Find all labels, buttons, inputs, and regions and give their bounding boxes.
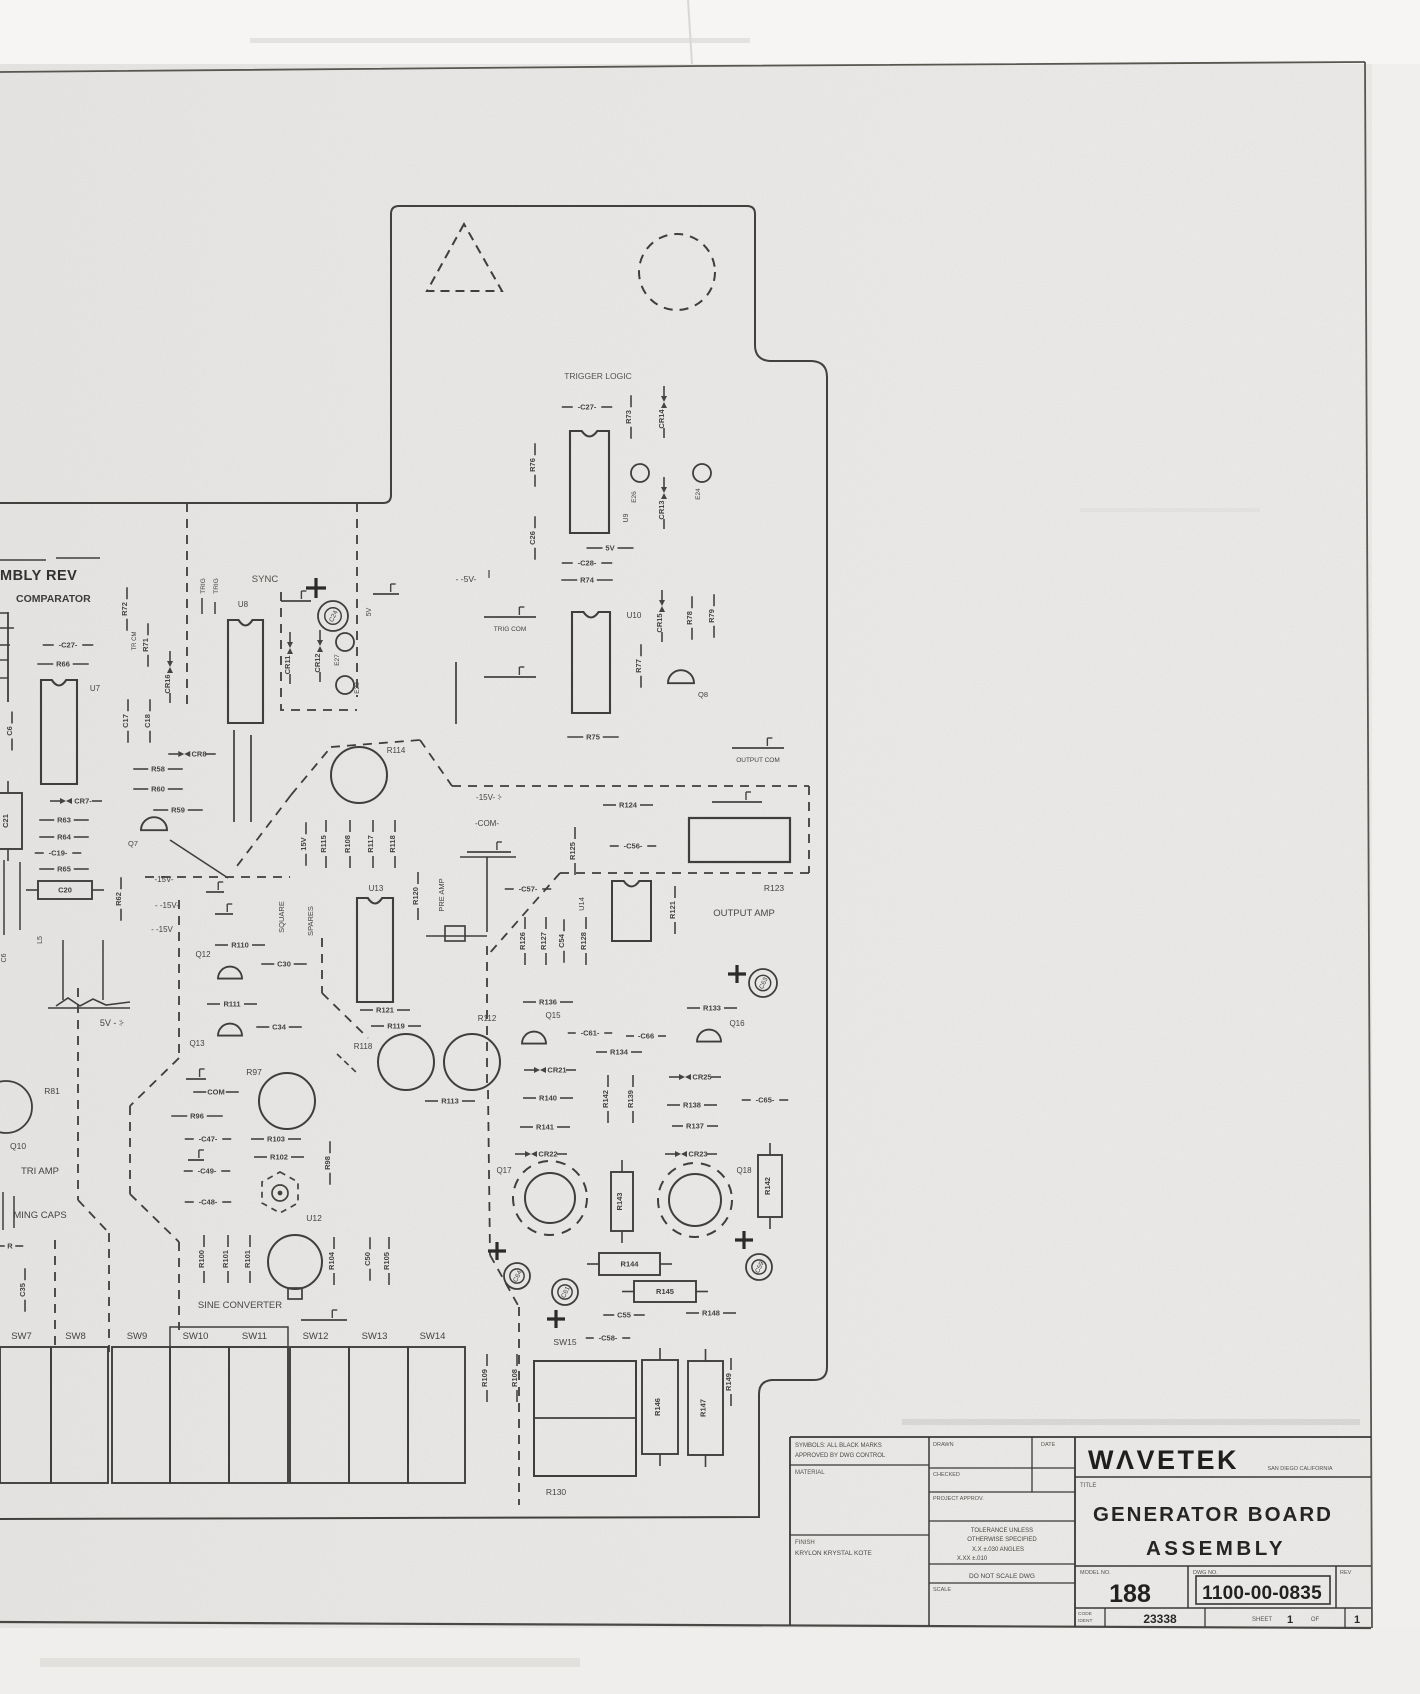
capacitor C27 (comparator) — [43, 641, 94, 650]
resistor R58 — [133, 765, 183, 774]
svg-text:-C28-: -C28- — [578, 559, 597, 568]
cut component left low a — [2, 1192, 4, 1230]
svg-text:5V: 5V — [366, 607, 373, 616]
potentiometer R118 can — [378, 1034, 434, 1090]
resistor R60 — [133, 785, 183, 794]
preamp boundary diag b (dashed) — [420, 740, 452, 786]
timing caps block boundary diag (dashed) — [78, 1200, 109, 1233]
resistor R115 — [319, 820, 328, 868]
svg-text:SAN DIEGO CALIFORNIA: SAN DIEGO CALIFORNIA — [1267, 1466, 1332, 1472]
title block mid col row3 — [929, 1520, 1075, 1522]
capacitor C30 — [261, 960, 307, 969]
cut component tick b — [0, 677, 8, 679]
eyelet E24 — [693, 464, 711, 482]
sine block boundary left v3 (dashed) — [178, 1242, 180, 1330]
svg-text:R130: R130 — [546, 1487, 567, 1497]
svg-text:R113: R113 — [441, 1097, 459, 1106]
wire Q7 diagonal — [170, 840, 228, 878]
svg-text:- -15V-: - -15V- — [155, 901, 179, 910]
svg-text:C55: C55 — [617, 1311, 631, 1320]
svg-text:U12: U12 — [306, 1213, 322, 1223]
resistor R100 — [197, 1235, 206, 1283]
svg-text:-COM-: -COM- — [475, 819, 499, 828]
svg-text:R128: R128 — [579, 932, 588, 950]
svg-text:R141: R141 — [536, 1123, 554, 1132]
svg-text:R121: R121 — [376, 1006, 394, 1015]
transistor Q12 — [218, 967, 242, 979]
svg-text:REV: REV — [1340, 1570, 1352, 1576]
sync block left boundary (dashed) — [186, 503, 188, 704]
svg-text:R76: R76 — [528, 458, 537, 472]
svg-text:OUTPUT COM: OUTPUT COM — [736, 757, 780, 764]
resistor R113 — [425, 1097, 475, 1106]
svg-text:R115: R115 — [319, 835, 328, 853]
capacitor C65 — [742, 1096, 789, 1105]
left dashed boundary low — [54, 1240, 56, 1352]
resistor R147 — [688, 1349, 723, 1467]
title block mid col row1 — [929, 1467, 1075, 1469]
resistor R77 — [634, 644, 643, 688]
diode CR16 — [163, 651, 173, 703]
svg-text:C17: C17 — [121, 714, 130, 728]
svg-text:R120: R120 — [411, 887, 420, 905]
capacitor C54 — [557, 919, 566, 963]
title block date cell divider — [1031, 1437, 1033, 1492]
svg-text:188: 188 — [1109, 1580, 1151, 1608]
svg-text:R75: R75 — [586, 733, 600, 742]
wire C53 lead — [426, 935, 487, 937]
svg-text:CR8: CR8 — [191, 750, 206, 759]
resistor R139 — [626, 1075, 635, 1123]
svg-text:R: R — [7, 1242, 13, 1251]
svg-text:5V - ⸖: 5V - ⸖ — [100, 1018, 124, 1028]
svg-text:APPROVED BY DWG CONTROL: APPROVED BY DWG CONTROL — [795, 1453, 886, 1459]
page frame right border — [1365, 62, 1372, 1628]
svg-text:R138: R138 — [683, 1101, 701, 1110]
resistor network R123 — [689, 818, 790, 862]
svg-text:SW7: SW7 — [11, 1331, 32, 1342]
ground (sync right) — [373, 584, 399, 594]
capacitor C21 (cut) — [0, 781, 22, 861]
capacitor C57 — [505, 885, 552, 894]
capacitor C66b — [626, 1032, 666, 1041]
model row divider a — [1187, 1566, 1189, 1608]
svg-text:C50: C50 — [363, 1252, 372, 1266]
svg-text:DRAWN: DRAWN — [933, 1442, 954, 1448]
svg-text:TRI AMP: TRI AMP — [21, 1166, 59, 1177]
title block mid col row4 — [929, 1563, 1075, 1565]
svg-text:-15V-: -15V- — [154, 875, 173, 884]
svg-text:DATE: DATE — [1041, 1442, 1056, 1448]
svg-text:-C49-: -C49- — [198, 1167, 217, 1176]
svg-text:R66: R66 — [56, 660, 70, 669]
sine block boundary left v2 (dashed) — [129, 1106, 131, 1194]
ground TRIG COM — [484, 607, 536, 617]
svg-text:FINISH: FINISH — [795, 1540, 815, 1546]
svg-text:-C47-: -C47- — [199, 1135, 218, 1144]
svg-text:R102: R102 — [270, 1153, 288, 1162]
sine block boundary left v1 (dashed) — [178, 900, 180, 1058]
svg-text:SW9: SW9 — [127, 1331, 148, 1342]
switch SW8 — [51, 1347, 108, 1483]
svg-text:SPARES: SPARES — [306, 906, 315, 936]
svg-text:R140: R140 — [539, 1094, 557, 1103]
ground (sine converter) — [301, 1310, 347, 1320]
output amp boundary diag (dashed) — [488, 873, 560, 955]
timing caps block boundary (dashed) — [77, 988, 79, 1200]
output amp boundary bottom (dashed) — [560, 872, 809, 874]
polarity mark C59 — [735, 1231, 753, 1249]
ground (below trig) — [484, 667, 536, 677]
model row top — [1075, 1565, 1371, 1567]
sine block boundary right diag (dashed) — [322, 993, 368, 1038]
resistor R124 — [603, 801, 653, 810]
svg-text:SW14: SW14 — [420, 1331, 446, 1342]
svg-text:R101: R101 — [221, 1250, 230, 1268]
svg-text:1: 1 — [1287, 1614, 1293, 1626]
eyelet E28 — [336, 676, 354, 694]
svg-text:R79: R79 — [707, 609, 716, 623]
eyelet E27 — [336, 633, 354, 651]
rev table line b — [56, 557, 100, 559]
fiducial triangle (dashed) — [427, 224, 502, 291]
resistor R73 — [624, 395, 633, 439]
resistor R117 — [366, 820, 375, 868]
capacitor C18 — [143, 699, 152, 743]
svg-text:R101: R101 — [243, 1250, 252, 1268]
title block divider v1 — [928, 1437, 930, 1626]
switch SW15 divider — [534, 1417, 636, 1419]
resistor R144 — [587, 1253, 672, 1275]
svg-text:Q18: Q18 — [736, 1166, 752, 1175]
potentiometer R114 — [331, 747, 387, 803]
ground (sine mid) — [186, 1069, 206, 1079]
svg-text:Q16: Q16 — [729, 1019, 745, 1028]
resistor R149 — [724, 1358, 733, 1406]
resistor R105 — [382, 1237, 391, 1285]
svg-text:R97: R97 — [246, 1067, 262, 1077]
svg-text:CR16: CR16 — [163, 674, 172, 693]
svg-text:U10: U10 — [627, 611, 642, 620]
resistor R119 — [371, 1022, 421, 1031]
output block left v (dashed) — [486, 946, 488, 1090]
capacitor C55 — [603, 1311, 645, 1320]
page frame top border — [0, 62, 1365, 72]
switch SW9 — [112, 1347, 170, 1483]
ground (sine top) — [206, 882, 224, 892]
svg-text:MODEL NO.: MODEL NO. — [1080, 1570, 1111, 1576]
transistor Q18 — [669, 1174, 721, 1226]
resistor R142b — [758, 1143, 782, 1229]
svg-text:5V: 5V — [605, 544, 614, 553]
svg-text:E27: E27 — [334, 654, 341, 666]
svg-text:DO NOT SCALE DWG: DO NOT SCALE DWG — [969, 1573, 1035, 1580]
svg-text:TRIG: TRIG — [200, 578, 207, 594]
eyelet E26 — [631, 464, 649, 482]
preamp boundary diag c (dashed) — [237, 795, 291, 866]
resistor R108b — [510, 1354, 519, 1402]
svg-text:R58: R58 — [151, 765, 165, 774]
svg-text:Q7: Q7 — [128, 839, 138, 848]
wire (trigger block left) — [455, 662, 457, 724]
resistor R99b — [243, 1235, 252, 1283]
svg-text:1100-00-0835: 1100-00-0835 — [1202, 1583, 1322, 1604]
wire trig out — [214, 602, 216, 614]
faint crease top center — [688, 0, 692, 64]
diode CR14 — [657, 386, 667, 438]
sine block boundary top (dashed) — [145, 876, 290, 878]
wire left edge cut a — [3, 860, 5, 935]
resistor R-left-cut — [0, 1242, 23, 1251]
svg-text:X.X ±.030 ANGLES: X.X ±.030 ANGLES — [972, 1547, 1024, 1553]
ground OUTPUT COM — [732, 738, 784, 748]
capacitor C53 (small) — [445, 926, 465, 941]
resistor R109 — [480, 1354, 489, 1402]
capacitor C64 — [504, 1263, 530, 1289]
svg-text:R146: R146 — [653, 1398, 662, 1416]
sine block boundary diag1 (dashed) — [130, 1058, 179, 1106]
svg-text:R123: R123 — [764, 883, 785, 893]
resistor R103 — [251, 1135, 301, 1144]
diode CR25 — [669, 1073, 721, 1082]
svg-text:Q13: Q13 — [189, 1039, 205, 1048]
capacitor C34 — [256, 1023, 302, 1032]
svg-text:X.XX ±.010: X.XX ±.010 — [957, 1556, 988, 1562]
faint smudge top — [250, 38, 750, 43]
svg-text:TRIG COM: TRIG COM — [494, 626, 527, 633]
svg-text:U14: U14 — [577, 897, 586, 911]
svg-text:R105: R105 — [382, 1252, 391, 1270]
svg-text:CODE: CODE — [1078, 1611, 1092, 1617]
wire trig in — [201, 598, 203, 614]
svg-text:15V: 15V — [299, 837, 308, 850]
resistor R140 — [523, 1094, 573, 1103]
svg-text:MBLY REV: MBLY REV — [0, 568, 77, 584]
resistor R136 — [523, 998, 573, 1007]
diode CR23 — [665, 1150, 717, 1159]
capacitor C61b — [552, 1279, 578, 1305]
resistor R148 — [686, 1309, 736, 1318]
svg-text:R109: R109 — [480, 1369, 489, 1387]
transistor Q13 — [218, 1024, 242, 1036]
wire 5V squiggle — [48, 998, 130, 1008]
svg-text:C34: C34 — [272, 1023, 287, 1032]
svg-text:R148: R148 — [702, 1309, 720, 1318]
switch SW12 — [290, 1347, 349, 1483]
svg-text:R136: R136 — [539, 998, 557, 1007]
resistor R118 — [388, 820, 397, 868]
capacitor C49 — [184, 1167, 231, 1176]
preamp boundary diag a (dashed) — [291, 747, 331, 795]
resistor R59 — [153, 806, 203, 815]
svg-text:R117: R117 — [366, 835, 375, 853]
svg-text:MATERIAL: MATERIAL — [795, 1470, 825, 1476]
svg-text:SW15: SW15 — [553, 1337, 576, 1347]
right margin strip — [1372, 64, 1420, 1628]
faint smudge mid right — [1080, 508, 1260, 512]
switch SW11 — [229, 1347, 288, 1483]
svg-text:Q8: Q8 — [698, 690, 708, 699]
svg-text:TOLERANCE UNLESS: TOLERANCE UNLESS — [971, 1528, 1033, 1534]
capacitor C61 — [568, 1029, 613, 1038]
svg-text:Q10: Q10 — [10, 1141, 26, 1151]
svg-text:OF: OF — [1311, 1617, 1320, 1623]
resistor R71 — [141, 623, 150, 667]
capacitor C26 — [528, 516, 537, 560]
cut component tick a — [0, 659, 8, 661]
capacitor C35 — [18, 1268, 27, 1312]
svg-text:R78: R78 — [685, 611, 694, 625]
svg-text:R103: R103 — [267, 1135, 285, 1144]
svg-text:E26: E26 — [631, 491, 638, 503]
svg-text:COM: COM — [207, 1088, 225, 1097]
svg-text:-C61-: -C61- — [581, 1029, 600, 1038]
svg-text:R60: R60 — [151, 785, 165, 794]
diode CR11 — [283, 632, 293, 684]
svg-text:DWG NO.: DWG NO. — [1193, 1570, 1218, 1576]
svg-text:Q17: Q17 — [496, 1166, 512, 1175]
capacitor C27 (trigger) — [562, 403, 613, 412]
svg-text:R71: R71 — [141, 638, 150, 652]
resistor R121 — [360, 1006, 410, 1015]
resistor R137 — [672, 1122, 718, 1131]
capacitor C66 — [5, 712, 14, 751]
svg-text:R108: R108 — [343, 835, 352, 853]
svg-text:-C58-: -C58- — [599, 1334, 618, 1343]
svg-text:R137: R137 — [686, 1122, 704, 1131]
svg-text:R114: R114 — [387, 746, 406, 755]
output block left v4 (dashed) — [518, 1307, 520, 1505]
resistor R121b — [668, 886, 677, 934]
svg-text:-C56-: -C56- — [624, 842, 643, 851]
sync block right boundary (dashed) — [356, 503, 358, 697]
svg-text:- -5V-: - -5V- — [456, 574, 477, 584]
svg-text:R145: R145 — [656, 1287, 674, 1296]
svg-text:-15V- ⸖: -15V- ⸖ — [476, 793, 502, 802]
resistor R142 — [601, 1075, 610, 1123]
svg-text:R133: R133 — [703, 1004, 721, 1013]
net COM (sine) — [193, 1088, 239, 1097]
svg-text:R127: R127 — [539, 932, 548, 950]
svg-text:C20: C20 — [58, 886, 72, 895]
title block left col row1 — [790, 1464, 929, 1466]
wire 5V tick — [488, 570, 490, 578]
resistor R141 — [520, 1123, 570, 1132]
svg-text:SHEET: SHEET — [1252, 1617, 1272, 1623]
svg-text:R144: R144 — [621, 1260, 640, 1269]
fiducial circle (dashed) — [639, 234, 715, 310]
resistor R127 — [539, 917, 548, 965]
capacitor C47 — [185, 1135, 232, 1144]
svg-text:SW12: SW12 — [303, 1331, 329, 1342]
svg-text:SW10: SW10 — [183, 1331, 209, 1342]
svg-text:E24: E24 — [695, 488, 702, 500]
wire left edge comparator b — [0, 644, 10, 646]
svg-text:R110: R110 — [231, 941, 249, 950]
svg-text:C18: C18 — [143, 714, 152, 728]
potentiometer R97 — [259, 1073, 315, 1129]
svg-text:SW13: SW13 — [362, 1331, 388, 1342]
svg-text:R81: R81 — [44, 1086, 60, 1096]
ground (sync left) — [281, 591, 311, 601]
svg-text:TRIGGER LOGIC: TRIGGER LOGIC — [564, 371, 632, 381]
title block divider v2 — [1074, 1437, 1076, 1627]
resistor R133 — [687, 1004, 737, 1013]
resistor R66 — [37, 660, 89, 669]
svg-text:C6: C6 — [1, 953, 8, 962]
svg-text:MING CAPS: MING CAPS — [13, 1210, 66, 1221]
svg-text:CR11: CR11 — [283, 656, 292, 675]
diode CR8 — [168, 750, 216, 759]
resistor R134 — [596, 1048, 642, 1057]
svg-text:R73: R73 — [624, 410, 633, 424]
svg-text:-C57-: -C57- — [519, 885, 538, 894]
capacitor C56 — [610, 842, 657, 851]
capacitor C58 — [586, 1334, 631, 1343]
svg-text:R149: R149 — [724, 1373, 733, 1391]
output amp boundary top (dashed) — [452, 785, 809, 787]
IC U8 — [228, 620, 263, 723]
wire preamp top — [460, 856, 516, 858]
transistor U12 (can) — [268, 1235, 322, 1289]
svg-text:R104: R104 — [327, 1251, 336, 1270]
resistor R101 — [221, 1235, 230, 1283]
svg-text:ASSEMBLY: ASSEMBLY — [1146, 1537, 1286, 1560]
wavetek box bottom — [1075, 1476, 1371, 1478]
bottom row top — [1075, 1607, 1371, 1609]
polarity mark C24 — [306, 578, 326, 598]
svg-text:OUTPUT AMP: OUTPUT AMP — [713, 908, 775, 919]
svg-text:C54: C54 — [557, 933, 566, 948]
svg-text:CR7-: CR7- — [74, 797, 92, 806]
diode CR21 — [524, 1066, 576, 1075]
svg-text:TITLE: TITLE — [1080, 1483, 1096, 1489]
preamp boundary top (dashed) — [331, 740, 420, 747]
svg-text:CR23: CR23 — [688, 1150, 707, 1159]
bracket around SW10 SW11 labels — [170, 1327, 288, 1347]
resistor R62 — [114, 877, 123, 921]
diode CR13 — [657, 477, 667, 529]
transistor Q8 — [668, 670, 694, 683]
svg-text:PRE AMP: PRE AMP — [437, 878, 446, 911]
model row divider b — [1335, 1566, 1337, 1608]
diode CR7 — [50, 797, 102, 806]
svg-text:SINE CONVERTER: SINE CONVERTER — [198, 1300, 282, 1311]
wire preamp corner — [486, 857, 488, 932]
svg-text:U13: U13 — [369, 884, 384, 893]
capacitor C17 — [121, 699, 130, 743]
svg-text:-C27-: -C27- — [578, 403, 597, 412]
svg-text:R119: R119 — [387, 1022, 405, 1031]
ground (output left) — [467, 842, 511, 852]
ground (output mid) — [712, 792, 762, 802]
faint smudge above title block — [902, 1419, 1360, 1425]
title block left col row2 — [790, 1534, 929, 1536]
leader R118 (dashed) — [337, 1054, 358, 1074]
svg-text:R77: R77 — [634, 659, 643, 673]
sine block boundary diag2 (dashed) — [130, 1194, 179, 1242]
title block top edge — [790, 1436, 1371, 1438]
transistor Q7 — [141, 817, 167, 830]
IC U14 — [612, 881, 651, 941]
cut IC left edge vertical — [7, 612, 9, 702]
svg-text:C30: C30 — [277, 960, 291, 969]
resistor R63 — [39, 816, 89, 825]
svg-text:SYMBOLS: ALL BLACK MARKS: SYMBOLS: ALL BLACK MARKS — [795, 1443, 882, 1449]
svg-text:PROJECT APPROV.: PROJECT APPROV. — [933, 1496, 984, 1502]
transistor Q16 — [697, 1030, 721, 1042]
svg-text:OTHERWISE SPECIFIED: OTHERWISE SPECIFIED — [967, 1537, 1037, 1543]
